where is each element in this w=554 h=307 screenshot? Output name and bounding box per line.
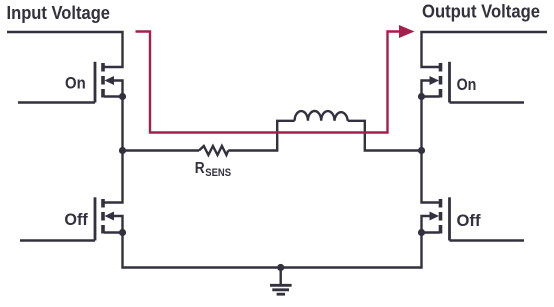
svg-text:Off: Off [64, 210, 88, 229]
wire Q1 source lead [104, 95, 123, 97]
label RSENS [195, 160, 231, 179]
wire output rail to Q3 drain [422, 32, 548, 67]
svg-text:On: On [65, 74, 86, 93]
transistor Q1 gate plate [94, 62, 97, 103]
wire Q4 gate lead (Off drive) [450, 239, 525, 241]
wire Q3 source lead [422, 95, 440, 97]
node junction dot Q2 source [119, 229, 126, 236]
transistor Q3 (top-right switch) channel bars [439, 63, 443, 98]
transistor Q1 body arrow [105, 76, 115, 85]
transistor Q3 body arrow [430, 76, 440, 85]
wire Q1 body tie [113, 81, 123, 97]
wire input rail to Q1 drain [7, 32, 123, 67]
transistor Q4 body arrow [430, 212, 440, 221]
node junction dot Q4 source [418, 229, 425, 236]
wire Q1 gate lead (On drive) [18, 101, 95, 103]
transistor Q4 (bottom-right switch) channel bars [439, 199, 443, 234]
wire Q2 gate lead (Off drive) [20, 239, 95, 241]
node junction dot right switch node [418, 147, 425, 154]
resistor RSENS [199, 146, 228, 155]
svg-text:Output Voltage: Output Voltage [422, 1, 540, 22]
transistor Q2 body arrow [105, 212, 115, 221]
node junction dot Q1 source [119, 93, 126, 100]
svg-text:Off: Off [457, 211, 481, 230]
svg-text:SENS: SENS [205, 167, 231, 179]
wire sense resistor to inductor [228, 121, 294, 151]
transistor Q2 (bottom-left switch) channel bars [101, 199, 105, 234]
wire Q3 gate lead (On drive) [450, 101, 525, 103]
wire Q3 body tie [422, 81, 431, 97]
current path (red) [136, 32, 401, 133]
node junction dot Q3 source [418, 93, 425, 100]
current path arrowhead [399, 25, 415, 38]
node junction dot left switch node [119, 147, 126, 154]
svg-text:R: R [195, 160, 205, 177]
transistor Q3 gate plate [448, 62, 451, 103]
wire middle rail left (switch node to sense resistor) [123, 149, 200, 151]
transistor Q4 gate plate [448, 197, 451, 240]
wire Q4 body tie [422, 216, 431, 233]
wire left rail Q1 source to Q2 drain [104, 97, 123, 203]
svg-text:Input Voltage: Input Voltage [7, 2, 111, 23]
node junction dot ground tap [277, 264, 284, 271]
svg-text:On: On [457, 75, 477, 94]
wire Q4 source lead [422, 231, 440, 233]
wire right rail Q3 source to Q4 drain [422, 97, 440, 203]
wire inductor to right switch node [348, 121, 422, 151]
transistor Q2 gate plate [94, 197, 97, 240]
inductor L1 [295, 111, 348, 121]
transistor Q1 (top-left switch) channel bars [101, 63, 105, 98]
wire Q2 body tie [113, 216, 123, 233]
ground [270, 268, 292, 295]
wire bottom rail [123, 233, 422, 268]
wire Q2 source lead [104, 231, 123, 233]
